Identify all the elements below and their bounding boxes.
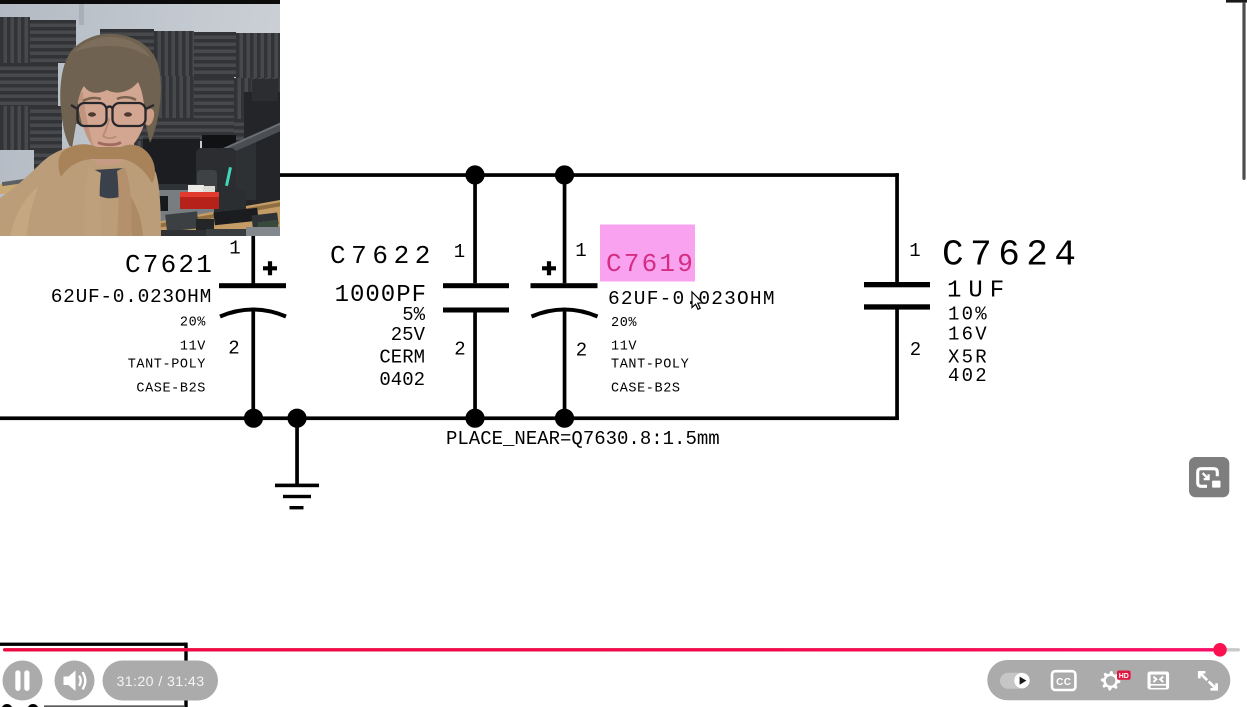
capacitor C7619 plates [531,283,598,316]
package 0402 [379,369,425,391]
refdes C7622 [330,241,436,271]
hair top light [74,37,151,58]
capacitor C7624 plates [864,282,930,310]
picture-in-picture popup button [1189,457,1229,497]
capacitor C7622 plates [443,283,509,312]
wire C7621 pin 2 [251,311,255,418]
capacitor C7622 [330,175,509,418]
progress bar played [3,648,1214,651]
scrollbar right [1226,0,1247,180]
value 62UF-0.023OHM [608,288,776,310]
type TANT-POLY [128,358,206,373]
progress bar track [3,648,1240,651]
package CASE-B2S [611,382,681,397]
gimbal camera [196,148,236,196]
capacitor C7619 (highlighted) [531,175,776,418]
pin number 2 C7619 [576,340,587,362]
top black strip [0,0,280,4]
junction bottom at ground stub [287,409,306,428]
tolerance 10% [948,304,989,326]
wire C7621 pin 1 [251,234,255,284]
svg-text:HD: HD [1119,673,1129,680]
webcam overlay [0,0,280,236]
value 62UF-0.023OHM [51,286,212,308]
node bottom sliver content [2,704,186,707]
voltage 25V [391,324,426,346]
foam tiles [0,17,30,63]
type TANT-POLY [611,358,689,373]
polarity plus C7619 [542,261,556,275]
jacket body [0,146,161,236]
junction bottom at C7622 [465,409,484,428]
tissue boxes above red box [188,185,204,194]
type X5R [948,347,989,369]
tolerance 5% [402,304,425,326]
autoplay toggle [1000,673,1030,689]
node PLACE_NEAR property [446,428,720,450]
pin number 2 C7624 [910,339,921,361]
capacitor C7621 [51,234,286,418]
svg-text:CC: CC [1056,677,1071,688]
ear [145,109,154,126]
below-desk dark [140,230,206,236]
wire ground stub [295,418,299,486]
refdes C7624 [942,235,1083,276]
desk surface [140,196,280,236]
junction bottom at C7621 [244,409,263,428]
monitor bottom strip [144,184,236,192]
eyebrows [83,98,101,101]
mouse cursor [692,292,703,309]
glasses [71,103,154,126]
tolerance 20% [611,316,637,331]
fullscreen button [1199,672,1216,689]
pin number 1 C7624 [909,240,920,262]
face [77,58,148,156]
mic boom arm [195,121,286,167]
collar corduroy [58,144,155,183]
pin number 2 C7622 [454,339,465,361]
voltage 11V [611,340,637,355]
package CASE-B2S [136,382,206,397]
node C7619 highlight [600,225,695,282]
settings gear [1101,671,1121,691]
theater/miniplayer button [1148,672,1170,690]
wire C7619 pin 2 [563,311,567,418]
value 1UF [947,278,1011,305]
desk clutter [150,196,168,211]
polarity plus C7621 [263,261,277,275]
hair back [60,34,161,148]
progress scrubber [1213,643,1227,657]
jacket front overlap [84,167,103,236]
pin number 2 C7621 [228,338,239,360]
refdes C7619 [606,249,695,279]
person [0,0,280,236]
nose [103,118,116,138]
wire C7622 pin 2 [473,313,477,419]
wire partial rectangle bottom-left [0,643,188,707]
voltage 16V [948,324,989,346]
wire right vertical (C7624 branch) [895,173,899,419]
wire top bus [270,173,899,177]
value 1000PF [335,282,427,309]
time pill [103,661,219,701]
package 402 [948,365,989,387]
face side shadow [77,92,94,148]
right controls pill [987,660,1230,700]
right camera rig mass [244,92,280,206]
capacitor C7624 [864,235,1083,388]
mouth [98,143,121,145]
inner shirt [93,168,129,198]
monitors [143,137,200,189]
neck [93,146,125,172]
wire C7619 pin 1 [563,175,567,283]
capacitor C7621 plates [219,283,286,316]
pause button [3,661,43,701]
desk left sliver [0,184,36,194]
eyes [88,112,96,116]
ground [275,484,319,510]
camera base dark [214,190,246,218]
clutter band [146,190,216,222]
voltage 11V [180,340,206,355]
wall seam pipe [79,3,84,25]
pin number 1 C7619 [575,240,586,262]
volume button [55,661,95,701]
captions CC button [1052,671,1075,690]
refdes C7621 [125,250,214,280]
wire bottom bus [0,416,899,420]
junction top at C7622 [465,165,484,184]
type CERM [379,347,425,369]
pin number 1 C7621 [229,238,240,260]
red box [180,192,219,198]
hair front [61,34,161,147]
tolerance 20% [180,316,206,331]
wire C7622 pin 1 [473,175,477,283]
svg-text:31:20 / 31:43: 31:20 / 31:43 [116,674,204,690]
HD badge [1117,671,1131,680]
jacket texture [10,187,38,236]
junction bottom at C7619 [555,409,574,428]
pin number 1 C7622 [454,241,465,263]
junction top at C7619 [555,165,574,184]
